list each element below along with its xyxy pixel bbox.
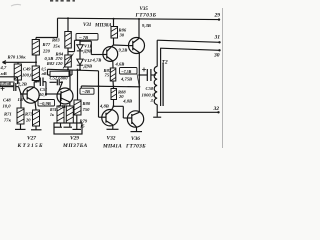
svg-text:V36: V36 [131,136,140,142]
svg-text:Т2: Т2 [162,60,168,66]
svg-text:750: 750 [83,107,91,112]
svg-text:МП37БА: МП37БА [62,143,88,149]
svg-text:С49: С49 [23,67,31,72]
svg-text:КТ315Б: КТ315Б [17,143,44,149]
svg-text:R86: R86 [119,27,127,32]
svg-text:29: 29 [214,12,221,18]
svg-text:32: 32 [213,106,220,112]
svg-text:220: 220 [42,49,51,54]
svg-text:V35: V35 [140,7,149,12]
svg-text:МП38А: МП38А [94,23,112,28]
svg-text:0,5: 0,5 [42,68,47,72]
svg-text:9,3В: 9,3В [142,23,151,28]
svg-text:V29: V29 [70,136,79,142]
svg-text:V12: V12 [84,58,92,63]
svg-text:4,6В: 4,6В [115,61,125,66]
svg-text:20: 20 [25,118,31,123]
svg-text:R70 130к: R70 130к [8,55,27,60]
svg-text:R80: R80 [83,101,91,106]
svg-text:V11: V11 [84,43,91,48]
svg-text:100,0: 100,0 [22,73,33,78]
svg-text:15к: 15к [53,44,61,49]
svg-text:9,2В: 9,2В [119,47,128,52]
svg-text:30: 30 [119,33,125,38]
svg-text:МП41А: МП41А [102,143,122,149]
svg-text:ГТ703Б: ГТ703Б [135,13,157,19]
svg-text:75: 75 [105,73,110,78]
svg-text:4,7В: 4,7В [92,58,102,63]
svg-text:~ 7В: ~ 7В [79,35,88,40]
svg-text:0,1В: 0,1В [58,104,67,109]
svg-text:V32: V32 [107,136,116,142]
svg-text:77к: 77к [4,118,12,123]
svg-text:1к: 1к [50,113,54,117]
svg-text:R73: R73 [25,112,33,117]
svg-text:10,0: 10,0 [39,92,48,97]
svg-text:4,75В: 4,75В [120,76,132,81]
svg-text:~7,5В: ~7,5В [121,69,131,74]
svg-text:R83: R83 [52,38,60,43]
svg-text:ГТ703Б: ГТ703Б [125,143,146,149]
svg-text:520мВ: 520мВ [1,82,12,86]
svg-text:4,8В: 4,8В [122,99,132,104]
svg-text:15: 15 [80,124,85,129]
svg-text:Д9В: Д9В [83,49,93,54]
svg-text:R82 120: R82 120 [47,61,63,66]
svg-text:1000,0: 1000,0 [142,93,155,98]
svg-text:30: 30 [213,52,220,58]
svg-text:мВ: мВ [41,72,47,76]
svg-text:4,8В: 4,8В [99,103,109,108]
svg-text:R71: R71 [4,112,12,117]
svg-text:С58: С58 [146,86,154,91]
svg-text:Д9В: Д9В [83,63,93,68]
svg-text:V31: V31 [83,23,91,28]
svg-text:С52 6800: С52 6800 [50,76,69,81]
svg-text:V27: V27 [27,136,36,142]
svg-text:R77: R77 [43,42,51,47]
svg-text:1В: 1В [18,97,23,102]
svg-text:4,7: 4,7 [0,65,7,70]
svg-text:С48: С48 [3,98,11,103]
svg-text:R74: R74 [50,108,56,112]
svg-text:~2В: ~2В [82,89,90,94]
svg-text:10,0: 10,0 [3,104,12,109]
svg-text:2,2В: 2,2В [17,81,27,86]
svg-text:мВ: мВ [0,71,7,76]
svg-text:~0,9В: ~0,9В [40,101,51,106]
svg-text:31: 31 [214,35,221,41]
